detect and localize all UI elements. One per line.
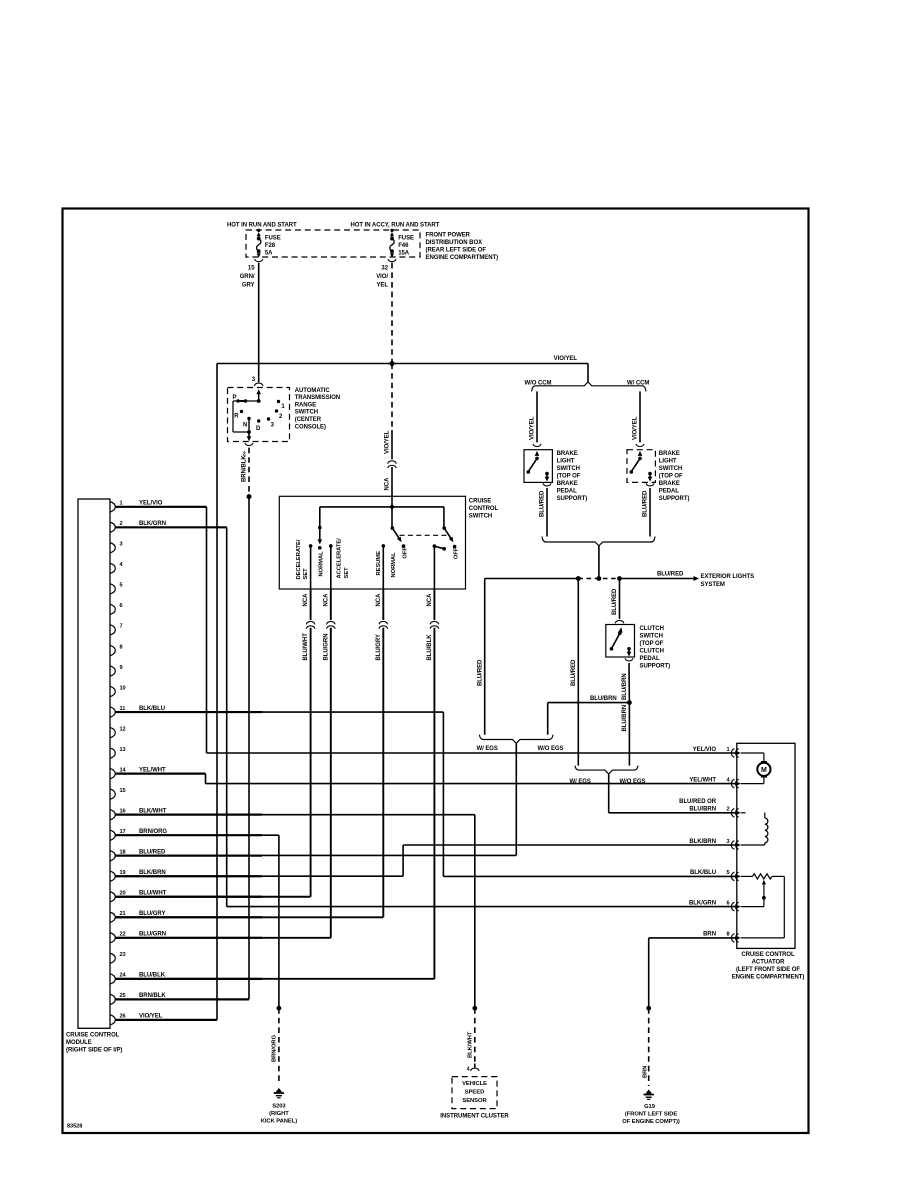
module pin 23 — [110, 952, 126, 963]
inline connector on BLU/BLK wire — [430, 621, 439, 624]
brake light switch output contact — [648, 472, 652, 476]
svg-text:6: 6 — [120, 603, 123, 609]
connector at brake light switch output — [646, 483, 654, 486]
svg-text:W/O CCM: W/O CCM — [525, 381, 552, 387]
svg-text:BLU/BRN: BLU/BRN — [622, 705, 628, 732]
connector at brake light switch 2 — [636, 444, 644, 447]
wire BLK/GRN module pin 2 to actuator pin 6 — [116, 526, 227, 528]
svg-text:(LEFT FRONT SIDE OF: (LEFT FRONT SIDE OF — [736, 967, 800, 973]
brake light switch 2 caption — [659, 451, 690, 502]
svg-text:2: 2 — [726, 807, 729, 813]
svg-text:SWITCH: SWITCH — [640, 633, 663, 639]
vehicle speed sensor box — [452, 1077, 497, 1109]
svg-text:32: 32 — [381, 266, 388, 272]
module pin 25 BRN/BLK — [110, 993, 249, 1005]
svg-text:CLUTCH: CLUTCH — [640, 626, 664, 632]
svg-text:BLU/GRN: BLU/GRN — [139, 932, 166, 938]
svg-text:23: 23 — [120, 952, 126, 958]
wire GRN/GRY from fuse F28 to range switch pin 3 — [258, 263, 260, 383]
svg-text:(TOP OF: (TOP OF — [640, 641, 664, 647]
module pin 19 BLK/BRN — [110, 870, 262, 881]
wire rail to resume switch — [391, 496, 393, 528]
wire DECELERATE contact down — [310, 546, 312, 589]
node A junction VIO/YEL — [390, 361, 395, 366]
svg-text:10: 10 — [120, 685, 126, 691]
svg-text:N: N — [243, 423, 247, 429]
svg-text:3: 3 — [726, 839, 729, 845]
off switch common — [442, 526, 446, 530]
connector at vehicle speed sensor — [474, 1064, 476, 1068]
svg-text:BRN: BRN — [703, 932, 716, 938]
svg-text:ACCELERATE/: ACCELERATE/ — [337, 538, 343, 579]
svg-text:BLU/GRN: BLU/GRN — [323, 634, 329, 661]
wire BLU/RED left branch down — [484, 579, 486, 735]
node BRN/BLK splice — [247, 494, 252, 499]
svg-text:M: M — [761, 767, 767, 774]
svg-text:OFF: OFF — [403, 547, 409, 559]
module pin 15 — [110, 788, 126, 799]
svg-text:YEL: YEL — [376, 282, 388, 288]
feedback potentiometer R1 inside actuator — [741, 874, 785, 938]
clutch switch arm with arrow — [618, 627, 622, 633]
brake light switch output arrow — [648, 477, 653, 482]
wire BLU/WHT from cruise switch to module pin 20 — [310, 589, 312, 620]
wire RESUME contact down — [382, 546, 384, 589]
range switch contact D — [257, 419, 260, 422]
svg-text:13: 13 — [120, 747, 126, 753]
svg-text:TRANSMISSION: TRANSMISSION — [295, 395, 340, 401]
svg-text:26: 26 — [120, 1014, 126, 1020]
module pin 8 — [110, 644, 123, 656]
svg-text:BLK/BRN: BLK/BRN — [689, 839, 716, 845]
module pin 14 YEL/WHT — [110, 767, 206, 778]
svg-text:SWITCH: SWITCH — [295, 410, 318, 416]
module pin 13 — [110, 747, 126, 759]
wire YEL/WHT module pin 14 to actuator pin 4 — [116, 773, 206, 775]
svg-text:FUSE: FUSE — [398, 236, 414, 242]
svg-text:F46: F46 — [398, 243, 409, 249]
wire BRN actuator pin 8 to ground G19 — [649, 937, 737, 939]
svg-text:D: D — [256, 426, 261, 432]
wire BLU/RED to clutch switch — [619, 579, 621, 619]
merge brace W/ EGS vs W/O EGS (right) — [575, 766, 638, 774]
svg-text:BLU/BRN: BLU/BRN — [590, 696, 617, 702]
cruise switch RESUME contact — [382, 544, 386, 548]
cruise control switch S2 box — [279, 496, 465, 589]
brake light switch 1 caption — [557, 451, 588, 502]
svg-text:SET: SET — [344, 567, 350, 579]
svg-text:SET: SET — [303, 568, 309, 580]
svg-text:BLU/GRY: BLU/GRY — [376, 634, 382, 660]
svg-text:BLU/RED OR: BLU/RED OR — [679, 799, 717, 805]
svg-text:BLU/RED: BLU/RED — [643, 490, 649, 517]
vehicle speed sensor caption — [462, 1081, 487, 1104]
svg-text:7: 7 — [120, 624, 123, 630]
range switch wire P to N — [232, 401, 234, 432]
cruise control actuator caption — [732, 952, 805, 981]
svg-text:PEDAL: PEDAL — [640, 656, 660, 662]
wire BLK/BRN module pin 19 to actuator pin 3 — [116, 875, 404, 877]
inline connector on BLU/GRY wire — [379, 621, 388, 624]
svg-text:BLU/RED: BLU/RED — [477, 659, 483, 686]
wire VIO/YEL module pin 26 stub — [116, 1019, 218, 1021]
automatic transmission range switch S1 — [228, 388, 290, 442]
cruise control switch caption — [469, 499, 499, 520]
brake light switch box (dashed) — [627, 450, 655, 483]
svg-text:(RIGHT SIDE OF I/P): (RIGHT SIDE OF I/P) — [66, 1047, 122, 1053]
svg-text:83528: 83528 — [67, 1124, 82, 1130]
arrow to exterior lights system — [694, 576, 699, 581]
brake light switch pivot contact — [535, 457, 539, 461]
actuator pin 4 YEL/WHT — [689, 777, 740, 788]
range switch contact 2 — [275, 409, 278, 412]
module pin 2 BLK/GRN — [110, 521, 227, 532]
svg-text:BRAKE: BRAKE — [659, 451, 680, 457]
svg-text:17: 17 — [120, 829, 126, 835]
fuse F28 5A — [255, 229, 281, 262]
svg-text:BLU/RED: BLU/RED — [612, 588, 618, 615]
svg-text:24: 24 — [120, 973, 127, 979]
wire BLU/BRN horizontal to W/O EGS branch — [548, 702, 630, 704]
brake light switch entry arrow — [638, 451, 643, 456]
range switch selector rail — [233, 400, 259, 402]
module pin 11 BLK/BLU — [110, 706, 262, 717]
motor M inside actuator — [741, 753, 771, 784]
svg-text:BRAKE: BRAKE — [557, 451, 578, 457]
connector at range switch pin 3 — [254, 383, 263, 386]
svg-text:YEL/WHT: YEL/WHT — [139, 767, 166, 773]
brake light switch arm — [631, 458, 640, 471]
connector at brake light switch 1 — [533, 444, 541, 447]
svg-text:(FRONT LEFT SIDE: (FRONT LEFT SIDE — [625, 1111, 678, 1117]
range switch node common — [257, 399, 261, 403]
brake light switch box — [524, 450, 552, 483]
range switch wiper arm P — [238, 400, 246, 402]
svg-text:SWITCH: SWITCH — [557, 466, 580, 472]
wire VIO/YEL to brake light switch 1 — [536, 391, 538, 442]
off switch OFF contact — [453, 545, 457, 549]
wire BLK/BLU module pin 11 to actuator pin 5 — [116, 711, 444, 713]
brake light switch output contact — [545, 472, 549, 476]
svg-text:SUPPORT): SUPPORT) — [557, 496, 588, 502]
module pin 26 VIO/YEL — [110, 1014, 217, 1025]
clutch switch box — [606, 625, 635, 658]
svg-text:VIO/YEL: VIO/YEL — [139, 1014, 163, 1020]
svg-text:(REAR LEFT SIDE OF: (REAR LEFT SIDE OF — [426, 248, 487, 254]
wire VIO/YEL from fuse F46 (dashed) to node A — [391, 263, 393, 364]
range switch node N junction — [247, 430, 251, 434]
svg-text:BRAKE: BRAKE — [557, 481, 578, 487]
svg-text:BLK/BLU: BLK/BLU — [690, 870, 716, 876]
fuse F46 15A — [388, 229, 414, 262]
merge brace W/ EGS vs W/O EGS (left) — [479, 735, 553, 744]
wire BLU/RED or BLU/BRN to module pin 18 — [515, 743, 517, 855]
range switch contact 3 — [267, 417, 270, 420]
svg-text:BLU/BLK: BLU/BLK — [139, 973, 166, 979]
split brace W/O CCM vs W/ CCM — [532, 382, 646, 391]
svg-text:BLU/RED: BLU/RED — [571, 659, 577, 686]
actuator pin 3 BLK/BRN — [689, 839, 740, 850]
svg-text:BLK/BRN: BLK/BRN — [139, 870, 166, 876]
wire ACCELERATE contact down — [330, 546, 332, 589]
svg-text:4: 4 — [467, 1066, 470, 1072]
ground S203 — [276, 1088, 283, 1092]
wire BLU/GRY from cruise switch to module pin 21 — [382, 589, 384, 620]
resume switch arm with arrow — [392, 528, 400, 540]
wire BLU/RED from brake light switch — [649, 488, 651, 537]
range switch contact N — [247, 417, 250, 420]
svg-text:F28: F28 — [265, 243, 276, 249]
svg-text:PEDAL: PEDAL — [659, 488, 679, 494]
potentiometer wiper arrow — [741, 880, 766, 907]
cruise switch DECELERATE/SET contact — [309, 544, 313, 548]
svg-text:ENGINE COMPARTMENT): ENGINE COMPARTMENT) — [732, 974, 805, 980]
actuator pin 5 BLK/BLU — [690, 870, 741, 881]
svg-text:5A: 5A — [265, 251, 273, 257]
svg-text:BLU/RED: BLU/RED — [657, 572, 684, 578]
svg-text:9: 9 — [120, 665, 123, 671]
set/decel switch arm arrow — [319, 528, 321, 540]
svg-text:CRUISE CONTROL: CRUISE CONTROL — [66, 1032, 120, 1038]
connector at brake light switch output — [543, 483, 551, 486]
svg-text:SUPPORT): SUPPORT) — [640, 663, 671, 669]
range switch output wire and arrow — [248, 432, 250, 437]
module pin 18 BLU/RED — [110, 850, 262, 861]
svg-text:VIO/YEL: VIO/YEL — [385, 430, 391, 454]
svg-text:8: 8 — [120, 644, 123, 650]
svg-text:LIGHT: LIGHT — [557, 459, 575, 465]
svg-text:AUTOMATIC: AUTOMATIC — [295, 388, 331, 394]
module pin 4 — [110, 562, 124, 574]
svg-text:NORMAL: NORMAL — [318, 551, 324, 577]
inline connector on BLU/GRN wire — [326, 621, 335, 624]
svg-text:BRAKE: BRAKE — [659, 481, 680, 487]
svg-text:VIO/YEL: VIO/YEL — [554, 356, 578, 362]
svg-text:BLU/BRN: BLU/BRN — [689, 807, 716, 813]
svg-text:BRN/ORG: BRN/ORG — [139, 829, 167, 835]
set/decel switch NORMAL contact — [318, 546, 322, 550]
module pin 3 — [110, 542, 123, 553]
brake light switch output arrow — [545, 477, 550, 482]
svg-text:21: 21 — [120, 911, 126, 917]
svg-text:NORMAL: NORMAL — [391, 552, 397, 578]
svg-text:15: 15 — [248, 266, 255, 272]
svg-text:(RIGHT: (RIGHT — [269, 1111, 289, 1117]
cruise control module caption — [66, 1032, 122, 1053]
wire OFF output contact down — [433, 546, 435, 589]
svg-text:DISTRIBUTION BOX: DISTRIBUTION BOX — [426, 240, 483, 246]
merge brace under brake light switches — [542, 537, 655, 546]
svg-text:R: R — [234, 413, 239, 419]
svg-text:NCA: NCA — [385, 477, 391, 491]
brake light switch arm — [528, 458, 537, 471]
svg-text:SENSOR: SENSOR — [462, 1098, 487, 1104]
svg-text:CLUTCH: CLUTCH — [640, 648, 664, 654]
range switch caption — [295, 388, 340, 431]
actuator pin 2 BLU/RED OR BLU/BRN — [726, 807, 740, 818]
border frame — [63, 209, 809, 1134]
resume switch common — [391, 526, 395, 530]
svg-text:VIO/YEL: VIO/YEL — [530, 416, 536, 440]
svg-text:BLU/BRN: BLU/BRN — [622, 673, 628, 700]
svg-text:NCA: NCA — [323, 593, 329, 607]
svg-text:BLK/WHT: BLK/WHT — [467, 1031, 473, 1058]
range switch contact 1 — [277, 400, 280, 403]
svg-text:OFF: OFF — [454, 547, 460, 559]
svg-text:NCA: NCA — [303, 593, 309, 607]
connector at clutch switch top — [615, 620, 624, 623]
svg-text:EXTERIOR LIGHTS: EXTERIOR LIGHTS — [701, 574, 755, 580]
off switch arm with arrow — [444, 528, 452, 540]
wire label 32 VIO/YEL — [376, 266, 389, 289]
svg-text:5: 5 — [120, 583, 123, 589]
module pin 12 — [110, 726, 126, 738]
node B rail BLU/RED — [485, 578, 579, 580]
svg-text:NCA: NCA — [427, 593, 433, 607]
wire BRN/BLK dashed from range switch — [248, 448, 250, 497]
svg-text:KICK PANEL): KICK PANEL) — [261, 1118, 297, 1124]
actuator pin 8 BRN — [703, 932, 741, 943]
svg-text:GRY: GRY — [242, 282, 255, 288]
module pin 10 — [110, 685, 126, 696]
module pin 5 — [110, 583, 123, 595]
svg-text:19: 19 — [120, 870, 126, 876]
inline connector on VIO/YEL feed — [388, 461, 397, 464]
wire rail to off switch — [443, 507, 445, 528]
wire BLU/RED right branch down — [577, 579, 579, 766]
ground S203 caption — [261, 1103, 297, 1124]
module pin 6 — [110, 603, 123, 614]
wire BRN/ORG module pin 17 to ground S203 — [116, 834, 279, 836]
svg-text:14: 14 — [120, 767, 127, 773]
svg-text:18: 18 — [120, 850, 126, 856]
node C junction BLU/BRN — [627, 700, 632, 705]
node splice BRN — [646, 1006, 651, 1011]
svg-text:BLU/BLK: BLU/BLK — [427, 634, 433, 661]
range switch internal entry arrow — [256, 389, 261, 394]
svg-text:15A: 15A — [398, 251, 410, 257]
cruise control module U1 box — [78, 499, 110, 1028]
svg-text:FUSE: FUSE — [265, 236, 281, 242]
svg-text:BLU/RED: BLU/RED — [540, 490, 546, 517]
svg-text:ENGINE COMPARTMENT): ENGINE COMPARTMENT) — [426, 255, 499, 261]
svg-text:RESUME: RESUME — [376, 551, 382, 576]
svg-text:VIO/YEL: VIO/YEL — [633, 416, 639, 440]
svg-text:W/ EGS: W/ EGS — [477, 746, 498, 752]
svg-text:BLU/WHT: BLU/WHT — [303, 633, 309, 661]
cruise switch ACCELERATE/SET contact — [329, 544, 333, 548]
node D junction in cruise switch — [390, 505, 394, 509]
svg-text:CONTROL: CONTROL — [469, 506, 499, 512]
svg-text:HOT IN ACCY, RUN AND START: HOT IN ACCY, RUN AND START — [351, 222, 440, 228]
svg-text:(CENTER: (CENTER — [295, 417, 322, 423]
svg-text:S203: S203 — [272, 1103, 286, 1109]
ground G19 caption — [622, 1104, 680, 1125]
cruise control actuator M1 box — [737, 743, 795, 948]
brake light switch entry arrow — [535, 451, 540, 456]
svg-text:MODULE: MODULE — [66, 1040, 92, 1046]
svg-text:RANGE: RANGE — [295, 402, 316, 408]
svg-text:YEL/VIO: YEL/VIO — [693, 747, 717, 753]
module pin 22 BLU/GRN — [110, 932, 262, 943]
svg-text:LIGHT: LIGHT — [659, 459, 677, 465]
svg-text:W/ CCM: W/ CCM — [627, 381, 649, 387]
solenoid coil L1 inside actuator — [741, 813, 768, 846]
range switch contact R — [240, 410, 243, 413]
wire BLU/BRN right branch down — [628, 703, 630, 766]
clutch switch caption — [640, 626, 671, 670]
actuator pin 6 BLK/GRN — [689, 900, 741, 911]
svg-text:ACTUATOR: ACTUATOR — [752, 959, 785, 965]
actuator pin 1 YEL/VIO — [693, 747, 741, 758]
module pin 24 BLU/BLK — [110, 973, 262, 985]
svg-text:(TOP OF: (TOP OF — [557, 474, 581, 480]
svg-text:SWITCH: SWITCH — [469, 514, 492, 520]
svg-text:CRUISE CONTROL: CRUISE CONTROL — [741, 952, 795, 958]
node splice BRN/ORG — [277, 1006, 282, 1011]
svg-text:12: 12 — [120, 726, 126, 732]
svg-text:8: 8 — [726, 932, 729, 938]
svg-text:HOT IN RUN AND START: HOT IN RUN AND START — [227, 222, 297, 228]
module pin 16 BLK/WHT — [110, 808, 262, 820]
svg-text:GRN/: GRN/ — [240, 274, 255, 280]
svg-text:6: 6 — [726, 900, 729, 906]
svg-text:CONSOLE): CONSOLE) — [295, 424, 326, 430]
wire VIO/YEL dashed from node A to cruise switch — [391, 364, 393, 431]
node splice BLK/WHT — [472, 1006, 477, 1011]
svg-text:5: 5 — [726, 870, 729, 876]
svg-text:VEHICLE: VEHICLE — [462, 1081, 487, 1087]
svg-text:P: P — [233, 395, 237, 401]
svg-text:BLU/GRY: BLU/GRY — [139, 911, 165, 917]
wire YEL/VIO module pin 1 to actuator pin 1 — [116, 506, 207, 508]
wire BLK/WHT module pin 16 to speed sensor — [116, 814, 475, 816]
svg-text:G19: G19 — [644, 1104, 656, 1110]
wire VIO/YEL rail left drop to module pin 26 — [216, 364, 218, 1020]
wire VIO/YEL rail right drop to split brace — [587, 364, 589, 383]
wire BRN/BLK to module pin 25 — [248, 497, 250, 1000]
svg-text:SYSTEM: SYSTEM — [701, 582, 725, 588]
wire label 15 GRN/GRY — [240, 266, 256, 289]
svg-text:FRONT POWER: FRONT POWER — [426, 233, 471, 239]
inline connector on BLU/WHT wire — [306, 621, 315, 624]
off switch output contact and arm — [433, 544, 437, 548]
module pin 17 BRN/ORG — [110, 829, 262, 841]
svg-text:3: 3 — [120, 542, 123, 548]
svg-text:BRN/BLK: BRN/BLK — [242, 455, 248, 482]
wire BLU/BRN left branch down — [547, 703, 549, 735]
wire VIO/YEL to brake light switch 2 — [639, 391, 641, 442]
wire BLU/RED OR BLU/BRN to actuator pin 2 — [608, 774, 610, 813]
wire rail to set/decel switch — [319, 507, 321, 528]
svg-text:INSTRUMENT CLUSTER: INSTRUMENT CLUSTER — [440, 1114, 509, 1120]
svg-text:CRUISE: CRUISE — [469, 499, 491, 505]
wire BLU/RED from brake light switch — [546, 488, 548, 537]
set/decel switch common — [318, 526, 322, 530]
module pin 7 — [110, 624, 123, 635]
svg-text:SWITCH: SWITCH — [659, 466, 682, 472]
actuator pin 2 label BLU/RED OR BLU/BRN — [679, 799, 717, 813]
wire BLU/BRN from clutch switch — [628, 663, 630, 703]
svg-text:OF ENGINE COMPT)): OF ENGINE COMPT)) — [622, 1119, 680, 1125]
connector at range switch pin 2 — [245, 443, 253, 446]
cruise switch supply rail — [320, 506, 444, 508]
resume switch OFF contact — [402, 544, 406, 548]
module pin 20 BLU/WHT — [110, 891, 262, 903]
svg-text:NCA: NCA — [376, 593, 382, 607]
svg-text:BRN: BRN — [642, 1066, 648, 1078]
brake light switch pivot contact — [638, 457, 642, 461]
